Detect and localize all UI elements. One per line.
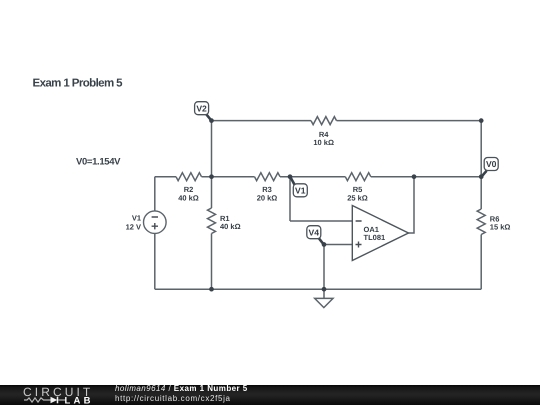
footer line 1: [115, 384, 248, 393]
voltage source V1: [144, 211, 167, 234]
svg-text:40 kΩ: 40 kΩ: [178, 194, 199, 203]
op-amp OA1: [352, 206, 408, 261]
svg-text:V1: V1: [295, 185, 306, 195]
svg-text:V0: V0: [486, 159, 497, 169]
wire left branch lower: [154, 233, 156, 289]
wire ground stub: [323, 289, 325, 298]
wire middle row V1src to R2: [155, 176, 176, 178]
node label V0: [482, 158, 499, 177]
ground symbol: [315, 298, 333, 307]
junction node dots: [209, 118, 483, 291]
svg-text:15 kΩ: 15 kΩ: [490, 222, 511, 231]
wire middle row R3 to R5: [280, 176, 345, 178]
svg-text:12 V: 12 V: [126, 223, 141, 232]
svg-text:R5: R5: [353, 185, 363, 194]
resistor R1 zigzag: [208, 208, 216, 234]
wire op-amp output: [409, 177, 415, 233]
resistor R4 zigzag: [311, 117, 337, 125]
circuitlab logo: [0, 383, 100, 405]
resistor R5 zigzag: [345, 173, 371, 181]
svg-text:20 kΩ: 20 kΩ: [257, 194, 278, 203]
svg-text:R3: R3: [262, 185, 272, 194]
svg-text:Exam 1 Problem 5: Exam 1 Problem 5: [33, 78, 124, 90]
wire R1 branch upper: [211, 121, 213, 208]
node label V4: [307, 226, 324, 245]
wire node V1 down: [289, 177, 291, 221]
wire left branch upper: [154, 177, 156, 211]
svg-text:25 kΩ: 25 kΩ: [347, 194, 368, 203]
resistor R3 zigzag: [255, 173, 281, 181]
svg-text:V0=1.154V: V0=1.154V: [76, 156, 121, 167]
resistor R2 zigzag: [176, 173, 202, 181]
resistor R6 zigzag: [477, 209, 485, 235]
svg-text:V2: V2: [196, 103, 207, 113]
wire right branch lower: [480, 235, 482, 290]
svg-text:40 kΩ: 40 kΩ: [220, 222, 241, 231]
svg-text:V4: V4: [309, 227, 320, 237]
footer bar: [0, 385, 540, 405]
footer line 2: [115, 394, 231, 403]
wire top row left of R4: [212, 120, 312, 122]
wire R1 branch lower: [211, 234, 213, 290]
svg-text:V1: V1: [132, 214, 141, 223]
wire middle row R2 to R3: [202, 176, 255, 178]
wire right branch upper: [480, 121, 482, 209]
svg-text:R2: R2: [184, 185, 194, 194]
svg-text:10 kΩ: 10 kΩ: [313, 138, 334, 147]
wire bottom row: [155, 288, 481, 290]
wire middle row R5 to V0 node: [371, 176, 481, 178]
node label V1: [290, 177, 307, 197]
wire to op-amp non-inverting input: [324, 244, 352, 246]
svg-text:TL081: TL081: [364, 233, 386, 242]
wire node V4 down to bottom row: [323, 245, 325, 290]
node label V2: [195, 102, 212, 121]
svg-text:LAB: LAB: [65, 396, 94, 405]
wire to op-amp inverting input: [290, 220, 352, 222]
wire top row right of R4: [337, 120, 482, 122]
